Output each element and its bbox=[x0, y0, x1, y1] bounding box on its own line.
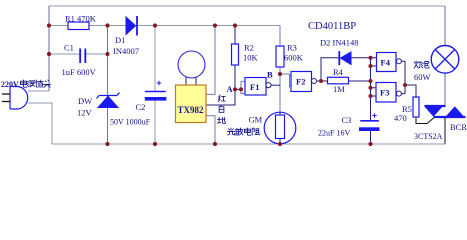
junction node A bbox=[233, 87, 237, 91]
svg-text:GM: GM bbox=[249, 115, 263, 125]
wire F3 output bbox=[401, 85, 405, 94]
svg-text:F1: F1 bbox=[250, 82, 259, 92]
junction F4 input2 bbox=[369, 64, 373, 68]
svg-text:F4: F4 bbox=[381, 58, 391, 68]
wire plug top lead bbox=[28, 90, 49, 92]
svg-text:R2: R2 bbox=[244, 43, 254, 53]
svg-text:1uF 600V: 1uF 600V bbox=[62, 67, 97, 77]
junction node B bbox=[278, 72, 282, 76]
svg-text:F2: F2 bbox=[296, 77, 305, 87]
wire triac MT1 to bottom rail bbox=[444, 117, 446, 144]
wire left vertical bbox=[48, 6, 50, 91]
svg-text:50V 1000uF: 50V 1000uF bbox=[110, 118, 151, 127]
junction F4-F3 outputs bbox=[403, 83, 407, 87]
junction rail-C2 x155 bbox=[153, 23, 157, 27]
zener DW bbox=[98, 96, 118, 107]
junction rail-R2 x235 bbox=[233, 23, 237, 27]
junction bottom-TX982gnd bbox=[213, 142, 217, 146]
junction rail-R1out x107.5 bbox=[105, 23, 109, 27]
gate F1 bbox=[245, 78, 266, 96]
wire main top rail bbox=[49, 25, 280, 27]
wire C2 vertical bbox=[154, 26, 156, 92]
junction C1-left bbox=[47, 52, 51, 56]
junction bottom-C2 bbox=[153, 142, 157, 146]
svg-text:R3: R3 bbox=[287, 43, 297, 53]
svg-text:3CTS2A: 3CTS2A bbox=[414, 132, 443, 141]
label deng-pao (lamp) 60W bbox=[414, 61, 421, 68]
wire C1 branch bbox=[49, 53, 108, 55]
svg-text:IN4007: IN4007 bbox=[113, 46, 139, 56]
diode D2 bbox=[341, 52, 352, 65]
wire node A to F1 inputs bbox=[235, 88, 241, 90]
label guang-min-dian-zu (photoresistor) bbox=[227, 128, 234, 135]
svg-text:F3: F3 bbox=[380, 88, 389, 98]
plug 220V body bbox=[10, 87, 28, 110]
junction F3 input2 bbox=[369, 94, 373, 98]
wire TX982 ground terminal bbox=[206, 116, 215, 144]
label bai (white) bbox=[219, 105, 224, 112]
wire top bypass bbox=[49, 5, 445, 7]
wire plug bottom lead bbox=[28, 103, 52, 144]
wire F4 output bbox=[401, 61, 405, 85]
svg-text:TX982: TX982 bbox=[178, 105, 205, 115]
wire F1 output to node B vertical bbox=[271, 84, 280, 86]
wire R5 branch bbox=[405, 85, 416, 97]
resistor R5 bbox=[413, 97, 419, 117]
svg-text:R4: R4 bbox=[333, 67, 344, 77]
triac BCR bbox=[425, 105, 446, 107]
junction bottom-GM bbox=[278, 142, 282, 146]
capacitor C2 bbox=[145, 91, 166, 93]
plug prongs bbox=[2, 94, 10, 102]
wire F3 input stubs bbox=[371, 88, 377, 96]
junction F1 input tie bbox=[239, 87, 243, 91]
label di (ground) bbox=[218, 117, 226, 123]
svg-text:CD4011BP: CD4011BP bbox=[308, 21, 356, 32]
gate F2 bbox=[291, 72, 312, 92]
svg-text:R1 470K: R1 470K bbox=[65, 14, 97, 24]
junction rail-TX982red x215 bbox=[213, 23, 217, 27]
svg-text:470: 470 bbox=[394, 113, 407, 123]
junction F3 input1 bbox=[369, 86, 373, 90]
junction D2-F4 input1 bbox=[369, 56, 373, 60]
svg-text:60W: 60W bbox=[414, 72, 431, 82]
lamp bbox=[431, 46, 459, 74]
svg-text:10K: 10K bbox=[243, 53, 259, 63]
microphone MIC bbox=[178, 51, 205, 78]
svg-text:DW: DW bbox=[78, 96, 92, 106]
capacitor C3 bbox=[360, 120, 379, 122]
resistor R2 bbox=[232, 44, 239, 65]
svg-text:C2: C2 bbox=[136, 102, 146, 112]
wire lamp drop bbox=[444, 6, 446, 46]
wire TX982 red terminal to rail bbox=[206, 26, 215, 95]
wire D2 branch bbox=[321, 58, 371, 81]
svg-text:C1: C1 bbox=[64, 43, 74, 53]
gate F4 bbox=[377, 53, 397, 72]
svg-text:D1: D1 bbox=[115, 35, 125, 45]
junction C1-right DW top bbox=[105, 52, 109, 56]
wire DW vertical bbox=[107, 26, 109, 145]
wire F2 output node bbox=[317, 80, 322, 82]
svg-text:C3: C3 bbox=[342, 115, 352, 125]
diode D1 bbox=[126, 17, 136, 35]
wire R4 leads bbox=[321, 80, 371, 82]
junction R4-delay node bbox=[369, 79, 373, 83]
svg-text:B: B bbox=[267, 70, 273, 80]
wire F4 input stubs bbox=[371, 58, 377, 66]
label hong (red) bbox=[218, 95, 225, 102]
wire delay node vertical to C3 bbox=[370, 58, 372, 120]
junction bottom-DW bbox=[105, 142, 109, 146]
svg-text:22uF 16V: 22uF 16V bbox=[318, 129, 350, 138]
svg-text:220V: 220V bbox=[1, 80, 19, 89]
svg-text:BCR: BCR bbox=[450, 122, 467, 132]
resistor R1 bbox=[68, 22, 89, 30]
svg-text:A: A bbox=[227, 84, 234, 94]
svg-text:1M: 1M bbox=[333, 84, 345, 94]
wire triac gate bbox=[416, 117, 435, 124]
gate F3 bbox=[376, 83, 396, 103]
wire bottom rail bbox=[52, 143, 445, 145]
junction rail-left x49 bbox=[47, 23, 51, 27]
resistor R4 bbox=[328, 77, 349, 84]
junction bottom-C3 bbox=[368, 142, 372, 146]
resistor R3 bbox=[276, 46, 284, 67]
svg-text:600K: 600K bbox=[284, 53, 304, 63]
svg-text:D2 IN4148: D2 IN4148 bbox=[320, 38, 358, 48]
wire R2 vertical / node A / white terminal bbox=[234, 26, 236, 45]
wire R3 drop bbox=[279, 26, 281, 113]
photoresistor GM bbox=[264, 112, 296, 144]
module TX982 bbox=[176, 85, 207, 123]
wire node B to F2 inputs bbox=[280, 74, 291, 88]
svg-text:12V: 12V bbox=[77, 108, 93, 118]
capacitor C1 bbox=[80, 49, 85, 64]
junction F2 output bbox=[319, 79, 323, 83]
